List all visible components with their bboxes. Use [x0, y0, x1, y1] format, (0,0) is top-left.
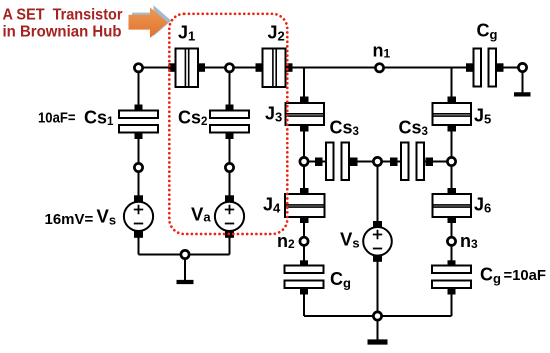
highlight dotted box around SET transistor: [169, 14, 287, 234]
tunnel junction J2: [256, 49, 293, 88]
capacitor Cs3 (right): [390, 143, 433, 181]
node (middle rail right): [447, 157, 455, 165]
label J6: [474, 195, 491, 216]
node (bottom-right rail): [373, 312, 381, 320]
svg-text:in Brownian Hub: in Brownian Hub: [3, 24, 122, 41]
label J4: [263, 195, 281, 216]
label Cs2: [178, 107, 207, 128]
node n2: [300, 237, 308, 245]
node (top-left): [134, 64, 142, 72]
annotation arrow callout: [129, 5, 172, 38]
label J2: [268, 22, 285, 43]
node (middle rail left): [300, 157, 308, 165]
wire Va branch (Cs2/Va): [229, 68, 231, 255]
tunnel junction J3: [286, 97, 325, 132]
wire J5/J6 branch: [451, 68, 453, 317]
svg-text:=10aF: =10aF: [504, 267, 547, 284]
capacitor Cs1: [119, 105, 158, 140]
node (bottom-left rail): [181, 250, 189, 258]
label Vs (middle): [340, 229, 360, 251]
node (top, between J1 and J2): [225, 64, 233, 72]
label Va: [191, 203, 211, 224]
label n2: [277, 231, 295, 251]
ground (bottom-left): [177, 255, 194, 283]
wire top rail: [138, 67, 523, 69]
value label 10aF= Cs1: [38, 108, 114, 129]
label n3: [460, 231, 478, 251]
label J3: [265, 104, 282, 125]
tunnel junction J6: [433, 188, 472, 223]
ground (bottom-right): [368, 316, 388, 342]
label n1: [373, 41, 391, 61]
voltage source Vs (left): [124, 195, 153, 238]
svg-text:10aF=: 10aF=: [38, 109, 76, 126]
label J5: [474, 106, 491, 127]
capacitor Cs2: [210, 105, 249, 140]
node (top-right, after Cg): [518, 63, 526, 71]
node n1: [375, 64, 383, 72]
wire bottom-left rail: [139, 254, 230, 256]
wire middle rail (Cs3 row): [304, 161, 452, 163]
annotation title text: [3, 7, 123, 41]
label J1: [178, 22, 195, 43]
wire middle Vs branch: [377, 162, 379, 317]
label Cs3 (right): [399, 118, 428, 139]
wire J3/J4 branch: [303, 68, 305, 317]
ground (top-right): [514, 68, 531, 95]
node (left branch mid): [134, 163, 142, 171]
svg-text:16mV=: 16mV=: [45, 211, 94, 228]
voltage source Vs (middle): [363, 221, 392, 262]
capacitor Cg (bottom-right): [432, 260, 471, 294]
value label 16mV= Vs: [45, 205, 117, 228]
node (middle rail center): [373, 157, 381, 165]
wire bottom-right rail: [304, 315, 452, 317]
voltage source Va: [215, 195, 244, 238]
label Cs3 (left): [330, 118, 359, 139]
capacitor Cg (bottom-left): [285, 260, 324, 294]
label Cg (bottom-left): [330, 269, 351, 291]
capacitor Cg (top-right): [466, 49, 504, 87]
tunnel junction J5: [433, 97, 472, 132]
svg-text:A SET Transistor: A SET Transistor: [3, 7, 123, 24]
wire left branch (Cs1/Vs): [138, 68, 140, 255]
value label Cg =10aF: [480, 265, 546, 287]
tunnel junction J1: [169, 49, 206, 88]
node n3: [447, 237, 455, 245]
tunnel junction J4: [285, 188, 325, 223]
capacitor Cs3 (left): [315, 143, 358, 181]
label Cg (top-right): [477, 20, 498, 42]
node (Va branch mid): [225, 163, 233, 171]
